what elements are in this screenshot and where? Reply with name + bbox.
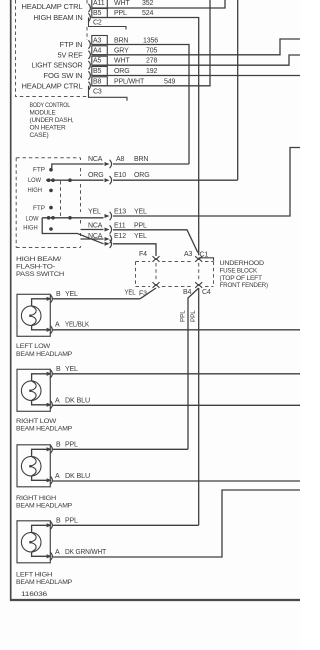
svg-text:HEADLAMP CTRL: HEADLAMP CTRL	[22, 83, 83, 90]
svg-text:RIGHT HIGH: RIGHT HIGH	[16, 495, 57, 502]
svg-text:FUSE BLOCK: FUSE BLOCK	[220, 268, 258, 275]
svg-text:C2: C2	[93, 19, 102, 26]
svg-text:BEAM HEADLAMP: BEAM HEADLAMP	[16, 426, 72, 433]
svg-text:ORG: ORG	[88, 172, 104, 179]
svg-text:PPL: PPL	[65, 517, 78, 524]
svg-text:YEL/BLK: YEL/BLK	[65, 322, 89, 329]
svg-text:ORG: ORG	[134, 172, 150, 179]
svg-text:FOG SW IN: FOG SW IN	[44, 73, 83, 80]
svg-text:B: B	[56, 291, 61, 298]
svg-text:5V REF: 5V REF	[58, 52, 83, 59]
svg-text:C3: C3	[93, 89, 102, 96]
svg-text:(UNDER DASH,: (UNDER DASH,	[30, 117, 74, 124]
svg-text:A3: A3	[93, 37, 102, 44]
svg-text:FTP: FTP	[33, 205, 45, 212]
svg-text:C4: C4	[202, 289, 211, 296]
svg-text:E12: E12	[114, 233, 126, 240]
svg-text:BODY CONTROL: BODY CONTROL	[30, 102, 71, 109]
svg-text:B: B	[56, 366, 61, 373]
svg-text:NCA: NCA	[88, 233, 103, 240]
svg-text:LOW: LOW	[28, 177, 41, 184]
svg-text:278: 278	[146, 58, 157, 65]
svg-text:FRONT FENDER): FRONT FENDER)	[220, 282, 268, 289]
svg-text:352: 352	[142, 0, 153, 7]
svg-text:705: 705	[146, 47, 157, 54]
svg-text:YEL: YEL	[88, 209, 101, 216]
svg-text:DK GRN/WHT: DK GRN/WHT	[65, 549, 107, 556]
svg-text:PPL/WHT: PPL/WHT	[114, 78, 145, 85]
svg-text:WHT: WHT	[114, 0, 130, 7]
svg-text:B5: B5	[93, 10, 102, 17]
svg-text:116036: 116036	[21, 591, 48, 598]
svg-text:HIGH: HIGH	[23, 224, 38, 231]
svg-text:PPL: PPL	[134, 223, 147, 230]
svg-text:PPL: PPL	[65, 441, 78, 448]
svg-text:MODULE: MODULE	[30, 110, 57, 117]
svg-text:FTP: FTP	[33, 166, 45, 173]
svg-text:RIGHT LOW: RIGHT LOW	[16, 418, 57, 425]
svg-text:A: A	[55, 397, 60, 404]
svg-text:HEADLAMP CTRL: HEADLAMP CTRL	[22, 4, 83, 11]
svg-text:A: A	[55, 549, 60, 556]
svg-text:HIGH BEAM IN: HIGH BEAM IN	[34, 15, 83, 22]
svg-text:B8: B8	[93, 78, 102, 85]
svg-text:BEAM HEADLAMP: BEAM HEADLAMP	[16, 579, 72, 586]
svg-text:YEL: YEL	[65, 366, 78, 373]
svg-text:A: A	[55, 322, 60, 329]
svg-text:PPL: PPL	[190, 310, 197, 322]
svg-text:524: 524	[142, 10, 153, 17]
svg-text:HIGH BEAM/: HIGH BEAM/	[16, 256, 61, 263]
svg-text:A4: A4	[93, 47, 102, 54]
svg-text:A11: A11	[93, 0, 105, 7]
svg-text:YEL: YEL	[125, 289, 136, 296]
svg-text:CASE): CASE)	[30, 132, 49, 139]
svg-text:UNDERHOOD: UNDERHOOD	[220, 260, 265, 267]
svg-text:BEAM HEADLAMP: BEAM HEADLAMP	[16, 351, 72, 358]
svg-text:PPL: PPL	[114, 10, 127, 17]
svg-text:B: B	[56, 441, 61, 448]
svg-text:BRN: BRN	[134, 156, 148, 163]
svg-text:BRN: BRN	[114, 37, 128, 44]
svg-text:(TOP OF LEFT: (TOP OF LEFT	[220, 275, 263, 282]
svg-text:E13: E13	[114, 209, 126, 216]
svg-text:LOW: LOW	[26, 215, 39, 222]
svg-text:LEFT HIGH: LEFT HIGH	[16, 571, 53, 578]
svg-text:FTP IN: FTP IN	[60, 42, 83, 49]
svg-text:B4: B4	[183, 289, 192, 296]
svg-text:YEL: YEL	[134, 209, 147, 216]
svg-text:NCA: NCA	[88, 156, 103, 163]
svg-text:E11: E11	[114, 223, 126, 230]
svg-text:A8: A8	[116, 156, 125, 163]
svg-text:549: 549	[164, 78, 175, 85]
svg-text:FLASH-TO-: FLASH-TO-	[16, 264, 55, 271]
svg-text:ON HEATER: ON HEATER	[30, 125, 67, 132]
svg-text:DK BLU: DK BLU	[65, 397, 90, 404]
svg-text:BEAM HEADLAMP: BEAM HEADLAMP	[16, 503, 72, 510]
svg-text:E10: E10	[114, 172, 126, 179]
svg-text:LEFT LOW: LEFT LOW	[16, 343, 51, 350]
svg-text:WHT: WHT	[114, 58, 130, 65]
svg-text:NCA: NCA	[88, 223, 103, 230]
svg-text:DK BLU: DK BLU	[65, 473, 90, 480]
svg-text:GRY: GRY	[114, 47, 129, 54]
svg-text:PPL: PPL	[180, 310, 187, 322]
svg-text:B5: B5	[93, 68, 102, 75]
svg-text:ORG: ORG	[114, 68, 130, 75]
svg-text:LIGHT SENSOR: LIGHT SENSOR	[32, 63, 83, 70]
svg-text:A: A	[55, 473, 60, 480]
svg-text:PASS SWITCH: PASS SWITCH	[16, 271, 65, 278]
svg-text:B: B	[56, 517, 61, 524]
svg-text:YEL: YEL	[65, 291, 78, 298]
svg-text:192: 192	[146, 68, 157, 75]
svg-text:F4: F4	[139, 251, 147, 258]
svg-text:1356: 1356	[143, 37, 158, 44]
svg-text:HIGH: HIGH	[28, 187, 43, 194]
svg-text:YEL: YEL	[134, 233, 147, 240]
svg-text:A3: A3	[184, 251, 193, 258]
svg-text:A5: A5	[93, 58, 102, 65]
